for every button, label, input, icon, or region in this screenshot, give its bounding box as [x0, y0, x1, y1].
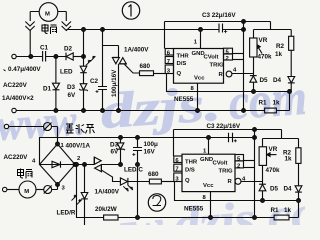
- pin 6 box: [165, 49, 173, 57]
- LED/C emitter: [120, 167, 143, 192]
- svg-text:1A/400V: 1A/400V: [95, 189, 120, 196]
- junction rail/C2-branch: [101, 28, 105, 32]
- wire terminal to C1: [16, 56, 42, 58]
- wire rail to pin 6: [164, 22, 166, 49]
- IC U1 NE555: [174, 49, 224, 84]
- label 电扇 bottom: [18, 169, 33, 179]
- timing rail 2: [174, 129, 282, 131]
- Vcc bottom rail circuit1: [16, 110, 264, 112]
- terminal bottom rail left: [12, 108, 16, 112]
- svg-text:NE555: NE555: [184, 206, 204, 213]
- IC U2 NE555: [182, 154, 235, 191]
- resistor R2 (circuit2) 1k: [283, 139, 301, 186]
- svg-text:AC220V: AC220V: [3, 82, 28, 89]
- svg-text:1A/400V×2: 1A/400V×2: [2, 95, 34, 102]
- label 整流桥 (bridge): [66, 124, 95, 134]
- svg-text:C3 22μ/16V: C3 22μ/16V: [202, 12, 236, 19]
- svg-text:CVolt: CVolt: [213, 160, 228, 166]
- junction D5/node: [252, 90, 256, 94]
- svg-text:470k: 470k: [258, 54, 273, 61]
- motor M2: [19, 181, 36, 198]
- wire pin4: [232, 73, 254, 75]
- wire pin4 (U2): [241, 181, 263, 183]
- timing rail top: [165, 21, 271, 23]
- label AC220V: [3, 82, 28, 89]
- wire motor to plug2: [36, 189, 44, 191]
- junction C2/rail: [101, 109, 105, 113]
- connector plug right (chevrons): [62, 12, 71, 31]
- svg-text:D2: D2: [64, 46, 73, 53]
- svg-text:D4: D4: [284, 186, 293, 193]
- junction D3-2 bottom: [119, 163, 123, 167]
- pin 3 box: [165, 65, 173, 74]
- svg-text:Q: Q: [177, 71, 182, 77]
- pin 5 box (U2): [235, 155, 244, 163]
- capacitor 100u/16V (circuit2): [132, 138, 158, 218]
- pin 3 box (U2): [174, 173, 182, 182]
- pin 4 bubble (U2): [235, 177, 246, 185]
- svg-text:D5: D5: [260, 77, 269, 84]
- wire pin2 (U2): [244, 167, 255, 169]
- diode D5: [250, 57, 268, 92]
- svg-text:R: R: [228, 179, 233, 185]
- plug connector (circle slash): [44, 123, 52, 131]
- potentiometer VR (circuit2) 470k: [259, 139, 280, 175]
- zener D3 6V: [67, 73, 88, 111]
- svg-text:Q: Q: [185, 178, 190, 184]
- label 1A/400V circuit2: [95, 189, 120, 196]
- svg-text:M: M: [45, 12, 50, 18]
- junction timing2/rail bottom: [253, 216, 257, 220]
- circled 1: [122, 2, 139, 19]
- DC rail to cap: [121, 137, 255, 139]
- svg-text:D3: D3: [67, 84, 76, 91]
- junction pin1/GND rail: [199, 28, 203, 32]
- resistor 20k/2W: [95, 206, 274, 220]
- svg-text:THR: THR: [185, 160, 198, 166]
- wire trig/thr vertical 2: [254, 130, 256, 218]
- junction D3/rail: [82, 109, 86, 113]
- svg-text:R1: R1: [271, 207, 280, 214]
- label 400V/1A: [66, 143, 91, 150]
- junction rail/LED-branch: [82, 28, 86, 32]
- svg-text:R1: R1: [259, 100, 268, 107]
- wire rail2 corner to VR2/R2 bar: [263, 130, 299, 139]
- svg-text:C3 22μ/16V: C3 22μ/16V: [207, 123, 241, 130]
- junction pin1-2: [207, 136, 211, 140]
- svg-text:1k: 1k: [275, 51, 283, 58]
- junction cap2 top: [136, 136, 140, 140]
- resistor 680 (circuit1): [140, 63, 166, 76]
- junction D4/node: [288, 90, 292, 94]
- junction C3 right: [242, 28, 246, 32]
- wire node up to GND rail: [83, 30, 85, 57]
- junction dot motor lead: [29, 55, 33, 59]
- capacitor C2 100u/16V: [90, 30, 107, 111]
- capacitor C1: [40, 45, 49, 62]
- junction timing/bottom rail: [242, 109, 246, 113]
- bridge rectifier: [32, 142, 81, 191]
- diode D4 (circuit2): [284, 186, 302, 201]
- wire pin5: [233, 53, 244, 55]
- svg-text:LED/C: LED/C: [124, 167, 143, 174]
- svg-text:1k: 1k: [273, 100, 281, 107]
- diode D1: [43, 57, 60, 111]
- triac T1: [112, 47, 149, 111]
- wire rail2 to pin6: [173, 130, 175, 157]
- svg-text:TRIG: TRIG: [210, 62, 224, 68]
- label 100u/16V (rotated): [111, 69, 118, 97]
- wire plug2 to bridge pin3: [51, 185, 57, 190]
- junction triac/rail: [117, 109, 121, 113]
- svg-text:D3: D3: [110, 142, 119, 149]
- pin 5 box: [224, 48, 233, 55]
- svg-text:TRIG: TRIG: [219, 169, 233, 175]
- junction node D1: [54, 55, 58, 59]
- wire 20k corner: [77, 165, 104, 218]
- pin 1 stub: [194, 30, 201, 49]
- capacitor C3 (circuit2): [207, 123, 255, 142]
- junction node LED branch: [82, 55, 86, 59]
- svg-text:VR: VR: [269, 146, 278, 153]
- wire bridge pin2 to triac2: [75, 164, 94, 166]
- label 1A/400Vx2: [2, 95, 34, 102]
- wire to plug: [9, 126, 44, 128]
- junction C3/timing rail: [242, 20, 246, 24]
- pin 1 stub (U2): [203, 138, 209, 155]
- watermark www.dzjs.com: [0, 69, 309, 150]
- LED indicator: [60, 56, 95, 76]
- terminal AC input bottom: [4, 124, 8, 128]
- svg-text:M: M: [24, 189, 29, 195]
- zener D3 (circuit2): [110, 138, 125, 165]
- svg-text:THR: THR: [177, 54, 190, 60]
- pin 7 box: [165, 57, 173, 65]
- pin 8 stub: [191, 83, 198, 110]
- junction cap2 mid: [136, 163, 140, 167]
- svg-text:D/S: D/S: [185, 167, 195, 173]
- svg-text:D1: D1: [43, 86, 52, 93]
- svg-text:GND: GND: [200, 157, 213, 163]
- wire Q-node L under U2: [175, 182, 211, 201]
- wire trig/thr vertical: [243, 22, 245, 111]
- wire Q-node L under IC: [167, 74, 198, 92]
- svg-text:AC220V: AC220V: [4, 154, 29, 161]
- svg-text:CVolt: CVolt: [204, 54, 219, 60]
- svg-text:NE555: NE555: [174, 96, 194, 103]
- wire C1 to D2: [46, 56, 66, 58]
- svg-text:D/S: D/S: [177, 61, 187, 67]
- svg-text:D5: D5: [270, 186, 279, 193]
- wire bridge pin4 to DC rail: [40, 138, 121, 165]
- wire terminal to motor: [7, 189, 19, 191]
- svg-text:16V: 16V: [144, 149, 156, 156]
- connector plug left (chevrons): [25, 12, 34, 57]
- svg-text:Vcc: Vcc: [203, 183, 214, 189]
- label 电扇 (fan): [42, 24, 57, 34]
- wire rail corner to VR/R2 bar: [254, 22, 292, 30]
- wire steering node: [198, 92, 290, 111]
- svg-text:C2: C2: [90, 78, 99, 85]
- diode D2: [64, 46, 84, 61]
- svg-text:1k: 1k: [284, 207, 292, 214]
- wire steering node 2: [210, 201, 299, 218]
- pin 4 bubble: [226, 68, 237, 77]
- pin 8 stub (U2): [203, 192, 211, 218]
- junction pin8/rail: [196, 109, 200, 113]
- svg-text:LED/R: LED/R: [57, 210, 76, 217]
- svg-text:D4: D4: [273, 77, 282, 84]
- svg-text:6V: 6V: [68, 92, 77, 99]
- wire pin5 (U2): [244, 160, 255, 162]
- svg-text:R: R: [219, 72, 224, 78]
- junction D5-2/node: [261, 199, 265, 203]
- svg-text:100μ: 100μ: [144, 141, 159, 148]
- label AC220V bottom: [4, 154, 29, 161]
- junction LED/R branch: [83, 163, 87, 167]
- capacitor C3 22u/16V: [202, 12, 244, 33]
- svg-text:6V: 6V: [111, 149, 120, 156]
- svg-text:400V/1A: 400V/1A: [66, 143, 91, 150]
- resistor 680 (circuit2): [128, 171, 174, 184]
- pin 2 box (U2): [235, 161, 244, 169]
- svg-text:0.47μ/400V: 0.47μ/400V: [8, 66, 41, 73]
- svg-text:680: 680: [140, 63, 151, 70]
- diode D5 (circuit2): [259, 165, 278, 200]
- terminal motor2: [2, 187, 6, 191]
- resistor R2 1k: [275, 30, 294, 77]
- pin 2 box: [224, 54, 233, 62]
- svg-text:1A/400V: 1A/400V: [124, 47, 149, 54]
- terminal AC input top: [12, 54, 16, 58]
- junction 20k branch: [75, 163, 79, 167]
- svg-text:R2: R2: [276, 43, 285, 50]
- LED/R receiver: [57, 165, 88, 226]
- svg-text:LED: LED: [60, 69, 73, 76]
- label NE555 (U2): [184, 206, 204, 213]
- resistor R1 (circuit2) 1k: [271, 207, 292, 220]
- junction timing2/vert: [253, 128, 257, 132]
- label NE555 (U1): [174, 96, 194, 103]
- pin 7 box (U2): [174, 164, 182, 173]
- svg-text:Vcc: Vcc: [194, 76, 205, 82]
- circled 2: [148, 194, 165, 211]
- svg-text:20k/2W: 20k/2W: [95, 206, 117, 213]
- svg-text:100μ/16V: 100μ/16V: [111, 69, 118, 97]
- junction C3-2 right: [253, 136, 257, 140]
- GND rail top (fan return): [67, 29, 220, 31]
- junction D3-2 top: [119, 136, 123, 140]
- svg-text:1k: 1k: [285, 156, 293, 163]
- svg-text:680: 680: [148, 171, 159, 178]
- diode D4: [273, 77, 295, 92]
- junction D1/rail: [54, 109, 58, 113]
- junction pin8-2/rail: [209, 216, 213, 220]
- svg-text:VR: VR: [259, 37, 268, 44]
- resistor R1 1k: [259, 100, 281, 113]
- wire pin2: [233, 59, 244, 61]
- plug connector 2 (circle slash): [44, 186, 52, 194]
- wire branch to triac top: [103, 46, 119, 58]
- wire plug to bridge pin1: [51, 127, 57, 145]
- pin 6 box (U2): [174, 156, 182, 164]
- motor M1 (fan): [30, 3, 66, 22]
- junction cap2 bottom: [136, 216, 140, 220]
- svg-text:470k: 470k: [266, 167, 281, 174]
- junction D4-2/node: [297, 199, 301, 203]
- label 0.47u/400V: [4, 66, 42, 73]
- svg-text:C1: C1: [40, 45, 49, 52]
- potentiometer VR 470k: [250, 30, 272, 61]
- triac T2: [94, 157, 121, 182]
